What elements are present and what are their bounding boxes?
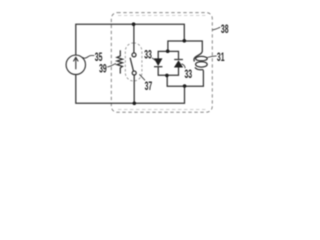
svg-text:38: 38	[221, 23, 229, 37]
svg-text:37: 37	[145, 80, 153, 94]
svg-text:39: 39	[99, 62, 107, 76]
svg-text:31: 31	[217, 51, 225, 65]
svg-text:33: 33	[144, 49, 152, 63]
svg-text:33: 33	[185, 68, 193, 82]
